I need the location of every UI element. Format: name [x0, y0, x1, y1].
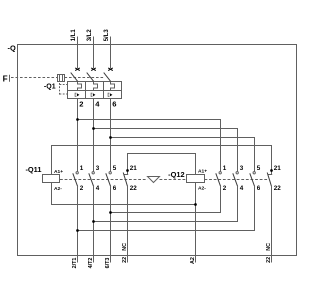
wire Q11 out 2 to terminal 2/T1: [77, 187, 79, 263]
terminal 2/T1 label: [72, 258, 78, 269]
svg-text:A2: A2: [190, 257, 196, 264]
svg-text:22: 22: [266, 257, 272, 263]
junction dot A2: [194, 203, 197, 206]
mechanism dashed line Q11: [60, 179, 148, 181]
Q1 pole 3 lever: [104, 73, 111, 82]
coil Q11: [43, 175, 60, 183]
Q11 contact 1-2: [73, 172, 79, 187]
wire branch to Q12 pin 1: [78, 120, 221, 172]
wire Q11 contact 21 to Q12 coil A1: [128, 154, 196, 175]
svg-text:NC: NC: [122, 243, 128, 251]
Q1 pole 3 magnetic release: [111, 82, 115, 91]
latch square symbol: [58, 75, 65, 82]
tick after F: [9, 75, 11, 82]
wire Q11 out 4 to terminal 4/T2: [93, 187, 95, 263]
Q1 pole 1 lever: [71, 73, 78, 82]
svg-text:1: 1: [80, 165, 84, 172]
wire Q12 out 4 to T2: [94, 187, 238, 222]
svg-text:-Q1: -Q1: [44, 83, 56, 90]
wire L3 top stub: [110, 37, 112, 69]
mechanical interlock triangle: [148, 177, 160, 183]
svg-text:A1+: A1+: [198, 169, 207, 175]
coil Q12: [187, 175, 205, 183]
Q12 contact 5-6: [250, 172, 256, 187]
svg-text:6: 6: [257, 185, 261, 192]
svg-text:-Q12: -Q12: [168, 170, 184, 179]
svg-text:A2-: A2-: [198, 186, 206, 192]
svg-text:2: 2: [80, 185, 84, 192]
svg-text:6: 6: [112, 99, 116, 108]
svg-text:2/T1: 2/T1: [72, 258, 78, 269]
wire L2 top stub: [93, 37, 95, 69]
svg-text:21: 21: [130, 165, 138, 172]
svg-text:NC: NC: [266, 243, 272, 251]
terminal 22 NC label right: [266, 243, 272, 263]
svg-text:A2-: A2-: [54, 186, 62, 192]
svg-text:-Q: -Q: [8, 43, 16, 52]
Q1 dashed bracket: [60, 83, 68, 95]
terminal X mark L1: [75, 68, 80, 71]
svg-text:6: 6: [113, 185, 117, 192]
svg-text:6/T3: 6/T3: [105, 258, 111, 269]
terminal X mark L2: [91, 68, 96, 71]
wire Q11 A2 down and right: [52, 183, 196, 205]
Q12 auxiliary contact 21-22: [267, 169, 273, 187]
svg-text:22: 22: [122, 257, 128, 263]
terminal A2 label: [190, 257, 196, 264]
terminal 22 NC label left: [122, 243, 128, 263]
Q12 contact 3-4: [233, 172, 239, 187]
wire Q11 out 6 to terminal 6/T3: [110, 187, 112, 263]
svg-text:3: 3: [240, 165, 244, 172]
svg-text:5: 5: [257, 165, 261, 172]
wire branch to Q12 pin 3: [94, 129, 238, 172]
svg-text:5/L3: 5/L3: [104, 29, 110, 42]
trip dashed line left part: [11, 77, 58, 79]
Q1 pole 3 thermal release: [108, 93, 112, 96]
Q11 auxiliary contact 21-22: [123, 169, 129, 187]
svg-text:2: 2: [223, 185, 227, 192]
wire Q11 22 to terminal: [127, 187, 129, 263]
junction dot: [92, 220, 95, 223]
svg-text:22: 22: [130, 185, 138, 192]
node 5/L3 label: [104, 29, 110, 42]
Q1 pole 2 thermal release: [91, 93, 95, 96]
node 3/L2 label: [87, 29, 93, 42]
svg-text:1/L1: 1/L1: [71, 29, 77, 42]
svg-text:2: 2: [79, 99, 83, 108]
Q1 pole 2 magnetic release: [94, 82, 98, 91]
drawing frame border: [18, 45, 297, 256]
junction dot: [76, 118, 79, 121]
svg-text:F: F: [3, 75, 8, 84]
svg-text:-Q11: -Q11: [25, 165, 41, 174]
svg-text:4: 4: [96, 185, 100, 192]
node 1/L1 label: [71, 29, 77, 42]
Q12 contact 1-2: [216, 172, 222, 187]
svg-text:21: 21: [274, 165, 282, 172]
trip dashed line right part: [65, 77, 105, 79]
mechanism dashed line middle: [160, 179, 187, 181]
junction dot: [92, 127, 95, 130]
svg-text:3/L2: 3/L2: [87, 29, 93, 42]
svg-text:3: 3: [96, 165, 100, 172]
wire T2 vertical: [93, 99, 95, 172]
wire Q12 out 6 to T1: [78, 187, 255, 231]
junction dot: [109, 211, 112, 214]
svg-text:4: 4: [240, 185, 244, 192]
wire L1 top stub: [77, 37, 79, 69]
svg-text:4/T2: 4/T2: [88, 258, 94, 269]
mechanism dashed line Q12: [205, 179, 268, 181]
svg-text:A1+: A1+: [54, 169, 63, 175]
circuit breaker Q1 box: [68, 82, 122, 99]
svg-text:5: 5: [113, 165, 117, 172]
terminal X mark L3: [108, 68, 113, 71]
terminal 4/T2 label: [88, 258, 94, 269]
wire T3 vertical: [110, 99, 112, 172]
Q1 pole 1 magnetic release: [78, 82, 82, 91]
Q1 pole 2 lever: [87, 73, 94, 82]
Q11 contact 3-4: [89, 172, 95, 187]
wire Q12 22 to terminal: [271, 187, 273, 263]
svg-text:22: 22: [274, 185, 282, 192]
Q11 contact 5-6: [106, 172, 112, 187]
junction dot: [76, 229, 79, 232]
wire Q12 out 2 to T3: [111, 187, 221, 213]
junction dot: [109, 136, 112, 139]
Q1 pole 1 thermal release: [75, 93, 79, 96]
wire Q11 coil A1 to Q12 contact 21: [52, 146, 272, 175]
wire branch to Q12 pin 5: [111, 138, 255, 172]
svg-text:1: 1: [223, 165, 227, 172]
terminal 6/T3 label: [105, 258, 111, 269]
wire Q12 A2 down: [195, 183, 197, 263]
wire T1 vertical (Q1 out 2 to Q11 contact 1): [77, 99, 79, 172]
